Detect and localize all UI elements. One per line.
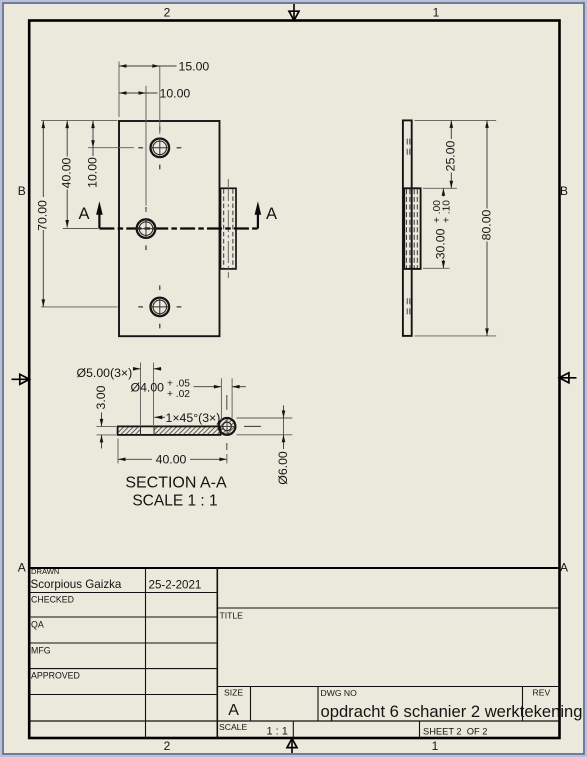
svg-text:QA: QA: [31, 619, 44, 629]
svg-text:+ .10: + .10: [441, 200, 452, 223]
svg-text:A: A: [266, 205, 277, 223]
svg-text:DWG NO: DWG NO: [321, 688, 358, 698]
svg-text:A: A: [78, 205, 89, 223]
svg-text:1: 1: [432, 739, 439, 753]
svg-text:Ø6.00: Ø6.00: [276, 451, 290, 485]
svg-text:40.00: 40.00: [156, 453, 187, 467]
svg-text:B: B: [18, 184, 26, 198]
svg-text:Ø5.00(3×): Ø5.00(3×): [77, 366, 133, 380]
svg-text:40.00: 40.00: [59, 157, 73, 188]
svg-text:SIZE: SIZE: [224, 688, 243, 698]
svg-text:70.00: 70.00: [36, 200, 50, 231]
svg-text:30.00: 30.00: [434, 228, 448, 259]
svg-text:opdracht 6 schanier 2 werkteke: opdracht 6 schanier 2 werktekening: [321, 702, 583, 721]
svg-text:3.00: 3.00: [94, 385, 108, 409]
svg-text:1: 1: [433, 6, 440, 20]
svg-text:Scorpious Gaizka: Scorpious Gaizka: [31, 578, 122, 591]
svg-text:TITLE: TITLE: [220, 610, 244, 620]
svg-text:MFG: MFG: [31, 645, 51, 655]
svg-text:REV: REV: [533, 688, 551, 698]
svg-text:25-2-2021: 25-2-2021: [149, 579, 202, 592]
svg-text:80.00: 80.00: [479, 209, 493, 240]
svg-text:SHEET 2 OF 2: SHEET 2 OF 2: [423, 727, 487, 737]
svg-text:+ .02: + .02: [167, 389, 190, 400]
svg-text:1 : 1: 1 : 1: [267, 726, 288, 738]
svg-text:SCALE 1 : 1: SCALE 1 : 1: [132, 492, 217, 509]
svg-text:CHECKED: CHECKED: [31, 594, 74, 604]
svg-text:B: B: [560, 184, 568, 198]
svg-text:A: A: [560, 561, 568, 575]
svg-text:DRAWN: DRAWN: [31, 567, 59, 576]
svg-text:10.00: 10.00: [160, 87, 191, 101]
svg-text:SECTION A-A: SECTION A-A: [125, 474, 227, 491]
svg-text:2: 2: [164, 6, 171, 20]
svg-text:Ø4.00: Ø4.00: [131, 380, 165, 394]
svg-text:2: 2: [164, 739, 171, 753]
svg-text:10.00: 10.00: [85, 157, 99, 188]
svg-text:15.00: 15.00: [179, 60, 210, 74]
svg-text:SCALE: SCALE: [219, 722, 247, 732]
svg-text:+ .05: + .05: [167, 378, 190, 389]
svg-text:A: A: [18, 561, 26, 575]
svg-text:A: A: [228, 702, 239, 719]
svg-text:1×45°(3×): 1×45°(3×): [166, 411, 221, 425]
svg-text:25.00: 25.00: [444, 140, 458, 171]
svg-text:APPROVED: APPROVED: [31, 670, 80, 680]
